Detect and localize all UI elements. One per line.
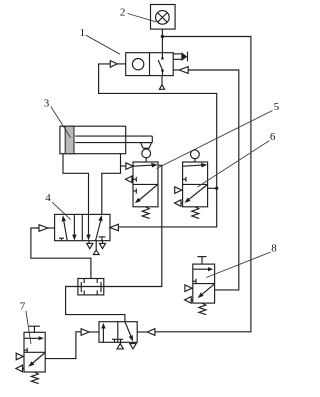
wire valve 5 output to shuttle valve xyxy=(104,165,162,286)
svg-text:3: 3 xyxy=(44,97,50,109)
bottom valve supply xyxy=(117,344,123,349)
valve 4 exhaust right xyxy=(100,241,106,249)
roller valve 5 xyxy=(125,149,158,207)
spring valve 6 xyxy=(192,207,199,219)
bottom valve right pilot xyxy=(137,329,155,336)
valve 8 (plunger valve) xyxy=(185,257,215,304)
svg-text:4: 4 xyxy=(45,192,51,204)
valve 4 right pilot xyxy=(110,224,118,231)
valve 4 supply xyxy=(93,241,99,255)
wire valve 6 output to junction xyxy=(208,187,217,189)
wire shuttle top port to valve 4 left pilot xyxy=(31,228,91,279)
svg-text:8: 8 xyxy=(271,243,277,255)
spring valve 5 xyxy=(142,207,149,219)
roller valve 6 xyxy=(175,150,208,207)
wire cylinder right port to valve 4 port xyxy=(102,154,121,215)
leader line 6 xyxy=(198,141,270,188)
svg-text:5: 5 xyxy=(274,101,280,113)
shuttle valve block xyxy=(78,279,104,295)
leader line 8 xyxy=(206,252,270,278)
leader line 2 xyxy=(128,14,157,22)
svg-text:2: 2 xyxy=(120,7,126,19)
wire lamp to valve 1 xyxy=(161,29,163,57)
indicator lamp 2 xyxy=(151,5,176,30)
bottom valve left pilot xyxy=(81,329,99,336)
leader line 5 xyxy=(157,111,273,169)
valve 4 exhaust left xyxy=(87,241,93,249)
leader line 4 xyxy=(52,202,70,219)
wire valve 1 right port to valve 8 output xyxy=(188,70,239,290)
bottom pilot valve (3/2) xyxy=(99,322,137,344)
junction dot valve 6 output xyxy=(215,187,218,190)
wire cylinder left port to valve 4 port xyxy=(63,154,89,215)
valve 4 left pilot xyxy=(39,225,55,232)
spring valve 7 xyxy=(31,372,38,384)
leader line 7 xyxy=(26,311,31,344)
wire valve 7 output to bottom valve left pilot xyxy=(45,332,81,359)
spring valve 8 xyxy=(199,303,206,315)
wire node to bottom valve right pilot (right rail) xyxy=(155,37,251,332)
valve 4 (5/2 main valve) xyxy=(55,214,110,240)
svg-text:1: 1 xyxy=(80,27,86,39)
svg-text:6: 6 xyxy=(270,131,276,143)
leader line 3 xyxy=(51,107,71,138)
cylinder 3 xyxy=(60,126,152,154)
junction node xyxy=(161,35,164,38)
valve 7 (plunger valve) xyxy=(16,326,45,372)
wire valve 1 left port to valve 4 right pilot xyxy=(99,64,217,227)
valve 1 left port arrow xyxy=(110,61,125,68)
valve 1 top-right stub (blocked check) xyxy=(173,52,187,62)
valve 1 exhaust xyxy=(159,76,164,90)
bottom valve exhaust xyxy=(130,342,136,349)
svg-text:7: 7 xyxy=(20,301,26,313)
valve 1 right port arrow xyxy=(173,67,188,74)
wire shuttle left port to bottom valve top xyxy=(66,287,125,322)
wire tee to valve 5 supply xyxy=(121,165,126,167)
valve 1 (pressure switch unit) xyxy=(126,53,174,76)
leader line 1 xyxy=(86,35,120,54)
